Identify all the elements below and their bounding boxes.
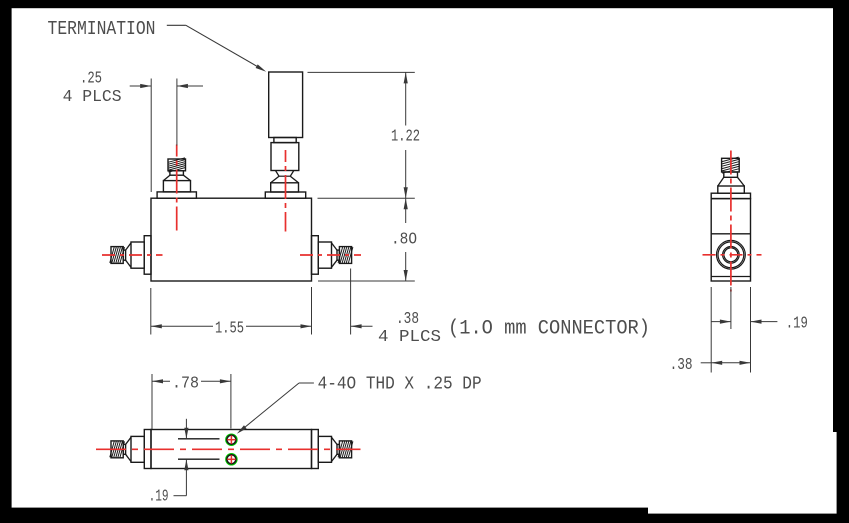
svg-text:1.22: 1.22 [391,127,420,146]
svg-text:.19: .19 [786,314,808,333]
svg-text:.25: .25 [80,70,102,89]
svg-text:1.55: 1.55 [215,319,244,338]
svg-text:.38: .38 [670,356,693,375]
svg-text:TERMINATION: TERMINATION [48,18,156,40]
svg-text:.19: .19 [149,488,169,507]
svg-text:.78: .78 [172,374,199,393]
svg-text:4-4O THD X .25 DP: 4-4O THD X .25 DP [318,374,482,395]
svg-text:4 PLCS: 4 PLCS [63,88,122,107]
svg-text:.38: .38 [396,310,419,329]
svg-text:4 PLCS: 4 PLCS [378,328,441,347]
svg-text:.8O: .8O [391,230,417,249]
svg-text:(1.O mm CONNECTOR): (1.O mm CONNECTOR) [448,317,650,340]
